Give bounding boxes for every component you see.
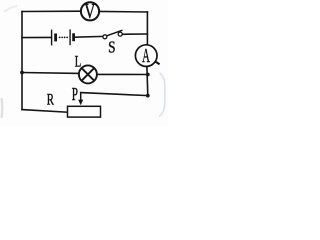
wire slider to bottom-right node (81, 93, 148, 96)
battery cell 2 short thick plate (72, 33, 75, 41)
svg-text:L: L (75, 53, 82, 70)
rheostat slider arrow P (78, 93, 83, 106)
wire right vertical upper (to ammeter) (146, 12, 148, 45)
wire lamp row right (97, 73, 148, 75)
voltmeter V1 (81, 0, 99, 23)
ammeter needle tick (155, 62, 159, 65)
faint scan artifact: blue callout edge at right (159, 73, 165, 117)
switch S terminal circle right (118, 32, 122, 36)
battery cell 1 short thick plate (54, 34, 57, 42)
battery ellipsis dots (59, 37, 68, 39)
svg-text:V: V (84, 0, 95, 23)
wire switch to right vertical (122, 33, 148, 35)
wire bottom-left to rheostat (22, 110, 68, 113)
faint scan artifact: left edge smudge (0, 98, 3, 118)
battery cell 1 long plate (51, 30, 53, 46)
rheostat R body (68, 106, 101, 117)
wire top-left to voltmeter (22, 10, 82, 12)
faint scan artifact: top-left smudge (4, 6, 17, 12)
ammeter A1 (135, 45, 159, 67)
node: lamp row right junction (146, 73, 150, 77)
switch S lever (107, 30, 123, 36)
svg-text:P: P (72, 84, 78, 104)
wire voltmeter to top-right corner (99, 10, 148, 13)
wire battery to switch (75, 35, 104, 38)
switch S terminal circle left (103, 35, 107, 39)
svg-text:S: S (108, 38, 115, 57)
lamp L1 (79, 65, 97, 83)
wire battery row left (22, 36, 51, 38)
battery cell 2 long plate (69, 29, 71, 45)
wire left vertical (21, 12, 23, 110)
wire lamp row left (22, 72, 79, 75)
node: bottom-right junction (146, 94, 150, 98)
wire below ammeter to bottom node (146, 66, 149, 95)
node: lamp row left junction (20, 71, 24, 75)
svg-text:A: A (142, 45, 150, 67)
svg-text:R: R (47, 91, 55, 108)
